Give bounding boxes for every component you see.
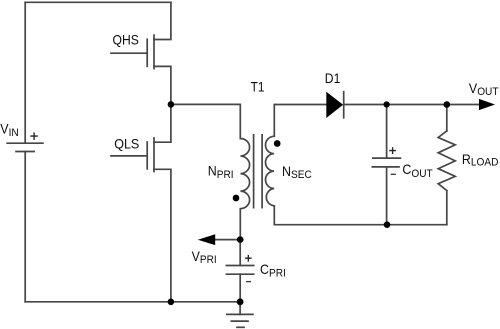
capacitor COUT <box>372 158 400 167</box>
wire primary bottom <box>239 209 241 240</box>
transformer T1 primary winding <box>241 139 250 209</box>
arrow VPRI <box>198 234 215 245</box>
transformer core <box>254 135 263 208</box>
svg-text:NPRI: NPRI <box>208 163 234 181</box>
wire left rail lower <box>24 152 26 302</box>
transformer secondary winding <box>265 136 274 206</box>
node VPRI junction <box>237 236 244 243</box>
wire VPRI node to CPRI <box>239 240 241 266</box>
arrow VOUT <box>479 99 495 110</box>
wire secondary bottom rail <box>274 206 447 225</box>
ground <box>227 302 253 328</box>
svg-text:RLOAD: RLOAD <box>462 151 499 168</box>
capacitor COUT plus sign <box>390 148 395 153</box>
wire left rail upper <box>24 2 26 143</box>
transistor QLS <box>111 104 171 301</box>
wire COUT top lead <box>386 105 388 159</box>
svg-text:D1: D1 <box>325 70 341 86</box>
svg-text:VPRI: VPRI <box>192 249 217 267</box>
wire COUT bottom lead <box>386 167 388 225</box>
battery VIN <box>7 143 43 151</box>
capacitor COUT minus sign <box>391 173 395 175</box>
resistor RLOAD <box>438 131 455 191</box>
capacitor CPRI minus sign <box>247 281 251 283</box>
capacitor CPRI <box>226 266 253 275</box>
wire top rail <box>25 1 171 3</box>
diode D1 cathode bar <box>343 92 345 118</box>
wire VPRI arrow shaft <box>212 239 240 241</box>
diode D1 triangle <box>326 92 343 118</box>
node switch junction <box>168 101 175 108</box>
svg-text:CPRI: CPRI <box>260 262 286 280</box>
wire RLOAD top lead <box>446 105 448 132</box>
node COUT junction top <box>384 101 390 107</box>
svg-text:NSEC: NSEC <box>282 163 312 181</box>
transistor QHS <box>111 2 171 104</box>
node RLOAD junction top <box>444 101 451 108</box>
polarity dot secondary <box>274 140 281 147</box>
node QLS source bottom rail junction <box>168 299 175 306</box>
svg-text:VOUT: VOUT <box>469 81 499 98</box>
wire RLOAD bottom lead <box>446 191 448 225</box>
battery plus sign <box>31 133 37 139</box>
wire diode to output arrow <box>344 104 479 106</box>
wire CPRI to ground node <box>239 274 241 302</box>
wire bottom rail <box>25 301 240 303</box>
svg-text:COUT: COUT <box>402 162 433 180</box>
svg-text:QHS: QHS <box>113 32 139 48</box>
svg-text:QLS: QLS <box>114 136 139 152</box>
svg-text:T1: T1 <box>251 79 265 95</box>
node ground junction <box>237 298 244 305</box>
wire switch node to primary <box>171 104 240 138</box>
svg-text:VIN: VIN <box>0 121 18 139</box>
wire secondary top to diode <box>274 105 326 137</box>
node COUT junction bottom <box>384 221 391 228</box>
capacitor CPRI plus sign <box>246 256 251 261</box>
polarity dot primary <box>233 195 240 202</box>
